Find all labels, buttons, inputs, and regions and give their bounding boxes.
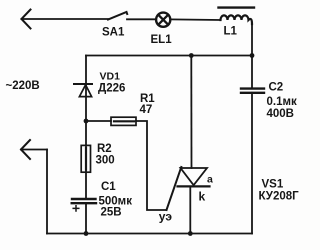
svg-text:a: a bbox=[207, 174, 213, 186]
inductor L1 bbox=[219, 8, 255, 24]
wire R1 right lead to gate bbox=[136, 121, 167, 210]
wire right column C2 upper lead bbox=[251, 56, 253, 89]
wire right column upper (L1 to node A) bbox=[251, 24, 253, 56]
switch SA1 bbox=[108, 12, 156, 20]
wire from lamp to inductor bbox=[170, 18, 220, 21]
svg-text:VD1: VD1 bbox=[100, 71, 121, 83]
svg-text:VS1: VS1 bbox=[262, 179, 284, 191]
svg-text:Д226: Д226 bbox=[98, 83, 125, 95]
svg-text:400В: 400В bbox=[267, 108, 295, 120]
capacitor C2 bbox=[241, 89, 264, 93]
junction dot anode tap on node A bbox=[189, 53, 194, 58]
junction dot cathode-rail bbox=[188, 231, 193, 236]
svg-text:C2: C2 bbox=[269, 82, 284, 94]
svg-text:EL1: EL1 bbox=[151, 34, 173, 46]
junction dot node A right column bbox=[250, 53, 255, 58]
bottom rail wire bbox=[47, 233, 252, 235]
svg-text:R1: R1 bbox=[140, 93, 155, 105]
svg-text:47: 47 bbox=[140, 104, 153, 116]
triac VS1 bbox=[178, 168, 210, 186]
resistor R2 bbox=[81, 145, 90, 172]
svg-text:300: 300 bbox=[96, 155, 115, 167]
mains terminal arrow top-left bbox=[22, 10, 31, 29]
wire right column lower bbox=[251, 93, 253, 234]
svg-text:C1: C1 bbox=[101, 181, 116, 193]
wire left branch vertical bbox=[46, 150, 48, 234]
wire top from arrow to switch bbox=[22, 18, 109, 20]
node A horizontal wire bbox=[86, 55, 252, 57]
wire anode line bbox=[190, 56, 192, 169]
junction dot node B bbox=[84, 119, 89, 124]
wire cathode line bbox=[189, 186, 191, 233]
svg-text:уэ: уэ bbox=[159, 210, 173, 224]
svg-text:~220В: ~220В bbox=[6, 80, 40, 92]
svg-text:L1: L1 bbox=[224, 26, 238, 38]
diode VD1 bbox=[74, 84, 92, 97]
svg-text:КУ208Г: КУ208Г bbox=[259, 191, 300, 203]
resistor R1 bbox=[111, 117, 136, 125]
wire gate diagonal bbox=[167, 167, 182, 210]
svg-text:R2: R2 bbox=[97, 143, 112, 155]
junction dot C1-rail bbox=[84, 231, 89, 236]
svg-text:0.1мк: 0.1мк bbox=[267, 96, 297, 108]
wire VD1 column upper bbox=[85, 56, 87, 200]
wire C1 to bottom rail bbox=[85, 203, 87, 233]
wire left branch horizontal bbox=[21, 149, 47, 151]
svg-text:k: k bbox=[199, 190, 206, 204]
svg-text:SA1: SA1 bbox=[102, 27, 125, 39]
lamp EL1 bbox=[156, 13, 170, 27]
capacitor C1 bbox=[72, 199, 96, 211]
svg-text:25В: 25В bbox=[101, 206, 122, 218]
wire R1 left lead bbox=[86, 120, 111, 122]
mains terminal arrow mid-left bbox=[21, 140, 30, 159]
